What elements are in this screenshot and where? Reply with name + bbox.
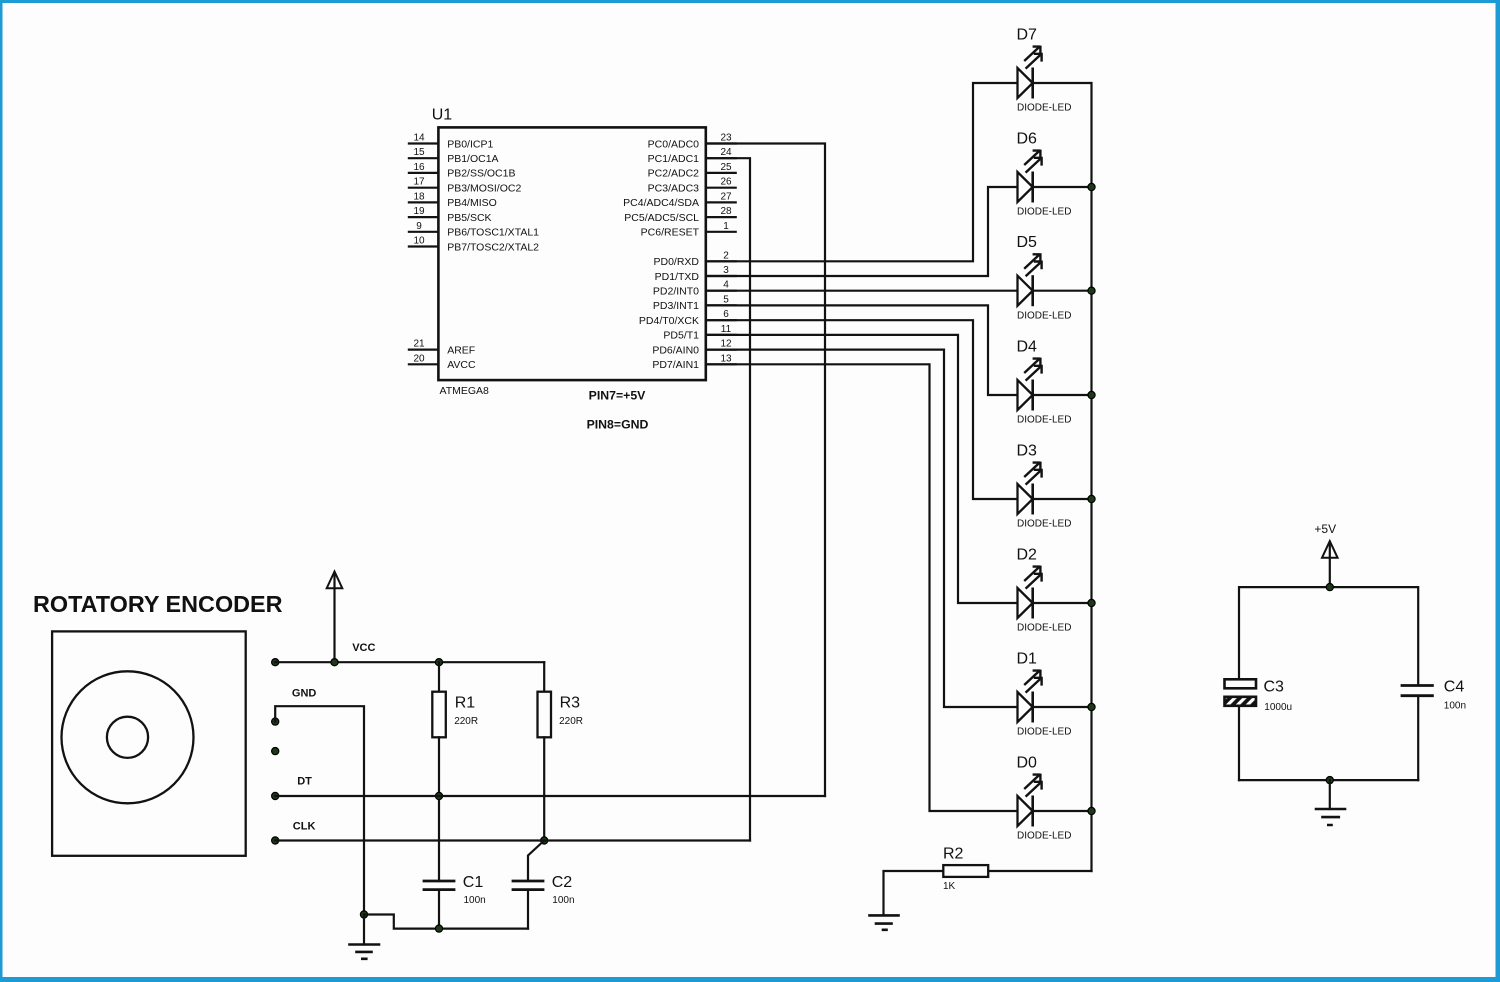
svg-text:GND: GND: [292, 688, 317, 700]
svg-text:ROTATORY ENCODER: ROTATORY ENCODER: [33, 591, 283, 617]
svg-text:1: 1: [723, 221, 729, 232]
wire pin3 to D6 anode: [706, 187, 1018, 276]
svg-text:20: 20: [413, 353, 425, 364]
svg-text:PB1/OC1A: PB1/OC1A: [447, 153, 498, 165]
svg-text:DIODE-LED: DIODE-LED: [1017, 103, 1071, 114]
junction bottom rail gnd: [1326, 777, 1333, 784]
pin 1 PC6/RESET: [641, 221, 736, 239]
junction D0 cathode on bus: [1088, 807, 1095, 814]
svg-text:D4: D4: [1017, 339, 1038, 356]
svg-text:23: 23: [720, 133, 732, 144]
resistor R2: [943, 846, 988, 893]
wire pin23 PC0 to DT net: [706, 144, 825, 797]
svg-text:D7: D7: [1017, 27, 1038, 44]
svg-text:27: 27: [720, 191, 732, 202]
svg-text:26: 26: [720, 177, 732, 188]
pin 25 PC2/ADC2: [648, 162, 736, 180]
IC U1 ATMEGA8 microcontroller: [438, 127, 705, 380]
svg-text:100n: 100n: [1444, 701, 1466, 712]
wire pin11 to D2 anode: [706, 335, 1018, 603]
wire R2 row: [884, 871, 1092, 915]
svg-text:D3: D3: [1017, 443, 1038, 460]
pin 18 PB4/MISO: [409, 191, 497, 209]
pin 12 PD6/AIN0: [652, 339, 735, 357]
encoder terminal CLK: [272, 837, 279, 844]
wire C2 top lead: [528, 841, 544, 882]
junction R1 DT: [435, 792, 442, 799]
svg-text:DIODE-LED: DIODE-LED: [1017, 415, 1071, 426]
junction +5V stem: [1326, 584, 1333, 591]
svg-text:PD4/T0/XCK: PD4/T0/XCK: [639, 315, 699, 327]
pin 10 PB7/TOSC2/XTAL2: [409, 236, 539, 254]
LED D0: [1017, 755, 1092, 842]
junction VCC R1 top: [435, 659, 442, 666]
junction D1 cathode on bus: [1088, 703, 1095, 710]
wire pin2 to D7 anode: [706, 83, 1018, 261]
svg-text:4: 4: [723, 280, 729, 291]
pin 20 AVCC: [409, 353, 476, 371]
wire GND net: [275, 706, 364, 914]
wire pin12 to D1 anode: [706, 350, 1018, 707]
capacitor C2: [513, 874, 575, 906]
svg-text:DIODE-LED: DIODE-LED: [1017, 310, 1071, 321]
junction D3 cathode on bus: [1088, 495, 1095, 502]
svg-text:D0: D0: [1017, 755, 1038, 772]
svg-text:12: 12: [720, 339, 732, 350]
svg-text:PC4/ADC4/SDA: PC4/ADC4/SDA: [623, 197, 699, 209]
svg-text:17: 17: [413, 177, 425, 188]
svg-text:1K: 1K: [943, 881, 956, 892]
wire C4 bottom lead: [1417, 696, 1419, 780]
LED D5: [1017, 234, 1092, 321]
svg-text:CLK: CLK: [293, 820, 316, 832]
svg-text:PC5/ADC5/SCL: PC5/ADC5/SCL: [624, 212, 699, 224]
pin 23 PC0/ADC0: [648, 133, 736, 151]
svg-text:25: 25: [720, 162, 732, 173]
svg-text:2: 2: [723, 250, 729, 261]
svg-text:PD3/INT1: PD3/INT1: [653, 300, 699, 312]
encoder terminal DT: [272, 792, 279, 799]
svg-text:C4: C4: [1444, 679, 1465, 696]
svg-text:DIODE-LED: DIODE-LED: [1017, 831, 1071, 842]
rotary encoder body: [52, 631, 246, 855]
ground at right rail: [1316, 780, 1345, 825]
svg-text:PB7/TOSC2/XTAL2: PB7/TOSC2/XTAL2: [447, 241, 539, 253]
svg-text:+5V: +5V: [1314, 522, 1336, 536]
junction C1 bottom: [435, 925, 442, 932]
wire +5V top rail: [1239, 587, 1418, 685]
svg-text:6: 6: [723, 309, 729, 320]
ground at R2: [870, 915, 899, 929]
svg-text:D6: D6: [1017, 131, 1038, 148]
svg-text:PB0/ICP1: PB0/ICP1: [447, 138, 493, 150]
LED D1: [1017, 651, 1092, 738]
svg-text:100n: 100n: [464, 895, 486, 906]
capacitor C1: [424, 874, 486, 906]
pin 19 PB5/SCK: [409, 206, 492, 224]
pin 26 PC3/ADC3: [648, 177, 736, 195]
junction D6 cathode on bus: [1088, 183, 1095, 190]
svg-text:11: 11: [721, 324, 732, 335]
resistor R3: [538, 692, 584, 738]
svg-text:19: 19: [413, 206, 425, 217]
svg-text:DIODE-LED: DIODE-LED: [1017, 727, 1071, 738]
svg-text:R2: R2: [943, 846, 964, 863]
svg-text:14: 14: [413, 133, 425, 144]
pin 28 PC5/ADC5/SCL: [624, 206, 735, 224]
LED D7: [1017, 27, 1092, 114]
ground at encoder: [350, 915, 380, 959]
svg-text:PB3/MOSI/OC2: PB3/MOSI/OC2: [447, 183, 521, 195]
LED D2: [1017, 547, 1092, 634]
pin 21 AREF: [409, 339, 475, 357]
junction D2 cathode on bus: [1088, 599, 1095, 606]
wire pin13 to D0 anode: [706, 364, 1018, 811]
svg-text:PC2/ADC2: PC2/ADC2: [648, 168, 700, 180]
encoder terminal VCC: [272, 659, 279, 666]
svg-text:16: 16: [413, 162, 425, 173]
svg-text:3: 3: [723, 265, 729, 276]
svg-text:C2: C2: [552, 874, 573, 891]
LED D4: [1017, 339, 1092, 426]
svg-text:1000u: 1000u: [1264, 702, 1292, 713]
svg-text:AVCC: AVCC: [447, 359, 476, 371]
svg-text:DIODE-LED: DIODE-LED: [1017, 623, 1071, 634]
svg-text:PD6/AIN0: PD6/AIN0: [652, 344, 699, 356]
svg-text:D2: D2: [1017, 547, 1038, 564]
LED D3: [1017, 443, 1092, 530]
wire DT row: [275, 795, 825, 797]
svg-text:C3: C3: [1264, 679, 1285, 696]
resistor R1: [432, 692, 478, 738]
svg-text:13: 13: [720, 353, 732, 364]
svg-text:PC0/ADC0: PC0/ADC0: [648, 138, 700, 150]
svg-text:PD0/RXD: PD0/RXD: [653, 256, 699, 268]
svg-text:10: 10: [413, 236, 425, 247]
svg-text:PC1/ADC1: PC1/ADC1: [648, 153, 700, 165]
pin 17 PB3/MOSI/OC2: [409, 177, 522, 195]
svg-text:24: 24: [720, 147, 732, 158]
junction D5 cathode on bus: [1088, 287, 1095, 294]
pin 11 PD5/T1: [663, 324, 735, 342]
wire pin24 PC1 to CLK net: [706, 158, 750, 840]
wire C3 bottom lead: [1238, 706, 1240, 780]
svg-text:PB6/TOSC1/XTAL1: PB6/TOSC1/XTAL1: [447, 227, 539, 239]
junction VCC arrow stem: [331, 659, 338, 666]
wire R3 bottom lead to CLK: [543, 737, 545, 840]
wire pin4 PD2 to D5 anode: [706, 290, 1018, 292]
pin 13 PD7/AIN1: [652, 353, 735, 371]
svg-text:DT: DT: [297, 776, 312, 788]
svg-text:9: 9: [416, 221, 422, 232]
svg-text:R3: R3: [560, 694, 581, 711]
pin 27 PC4/ADC4/SDA: [623, 191, 736, 209]
svg-text:PB5/SCK: PB5/SCK: [447, 212, 491, 224]
svg-text:DIODE-LED: DIODE-LED: [1017, 519, 1071, 530]
wire gnd branch to C1 C2: [364, 915, 528, 929]
pin 14 PB0/ICP1: [409, 133, 494, 151]
wire CLK row: [275, 839, 750, 841]
wire bottom rail: [1239, 779, 1418, 781]
svg-text:15: 15: [413, 147, 425, 158]
wire LED cathode bus: [1090, 83, 1092, 871]
svg-text:PB4/MISO: PB4/MISO: [447, 197, 497, 209]
wire pin5 to D4 anode: [706, 305, 1018, 395]
svg-text:PD1/TXD: PD1/TXD: [655, 271, 700, 283]
power +5V arrow right: [1322, 541, 1338, 587]
capacitor C3 electrolytic: [1225, 679, 1293, 713]
junction GND branch: [360, 911, 367, 918]
capacitor C4: [1402, 679, 1466, 712]
encoder terminal unconnected: [272, 748, 279, 755]
svg-text:PB2/SS/OC1B: PB2/SS/OC1B: [447, 168, 515, 180]
svg-text:AREF: AREF: [447, 344, 475, 356]
junction D4 cathode on bus: [1088, 391, 1095, 398]
junction R3 CLK C2: [541, 837, 548, 844]
pin 2 PD0/RXD: [653, 250, 735, 268]
pin 3 PD1/TXD: [655, 265, 736, 283]
svg-text:PD2/INT0: PD2/INT0: [653, 286, 699, 298]
svg-text:PC6/RESET: PC6/RESET: [641, 227, 700, 239]
pin 6 PD4/T0/XCK: [639, 309, 736, 327]
pin 24 PC1/ADC1: [648, 147, 736, 165]
power +5V arrow at VCC: [327, 572, 343, 663]
svg-text:PIN8=GND: PIN8=GND: [587, 418, 649, 432]
svg-text:100n: 100n: [552, 895, 574, 906]
svg-text:D5: D5: [1017, 234, 1038, 251]
svg-text:18: 18: [413, 191, 425, 202]
svg-text:PC3/ADC3: PC3/ADC3: [648, 183, 700, 195]
svg-text:PD7/AIN1: PD7/AIN1: [652, 359, 699, 371]
pin 9 PB6/TOSC1/XTAL1: [409, 221, 539, 239]
LED D6: [1017, 131, 1092, 218]
svg-text:220R: 220R: [559, 716, 583, 727]
wire R3 top lead: [543, 662, 545, 692]
svg-text:DIODE-LED: DIODE-LED: [1017, 207, 1071, 218]
encoder terminal GND: [272, 718, 279, 725]
wire C2 bottom lead: [527, 890, 529, 929]
pin 16 PB2/SS/OC1B: [409, 162, 516, 180]
wire R1 bottom lead to C1: [438, 737, 440, 881]
svg-text:PD5/T1: PD5/T1: [663, 330, 699, 342]
wire VCC row: [275, 661, 544, 663]
wire C1 bottom lead: [438, 890, 440, 929]
svg-text:21: 21: [413, 339, 425, 350]
svg-text:C1: C1: [463, 874, 484, 891]
svg-text:PIN7=+5V: PIN7=+5V: [589, 388, 647, 402]
svg-text:U1: U1: [432, 107, 453, 124]
svg-text:220R: 220R: [454, 716, 478, 727]
wire R1 top lead: [438, 662, 440, 692]
svg-text:ATMEGA8: ATMEGA8: [440, 385, 490, 397]
pin 5 PD3/INT1: [653, 294, 736, 312]
svg-text:28: 28: [720, 206, 732, 217]
wire pin6 to D3 anode: [706, 320, 1018, 499]
pin 4 PD2/INT0: [653, 280, 736, 298]
svg-text:R1: R1: [455, 694, 476, 711]
pin 15 PB1/OC1A: [409, 147, 499, 165]
svg-text:VCC: VCC: [352, 642, 375, 654]
svg-text:5: 5: [723, 294, 729, 305]
svg-text:D1: D1: [1017, 651, 1038, 668]
